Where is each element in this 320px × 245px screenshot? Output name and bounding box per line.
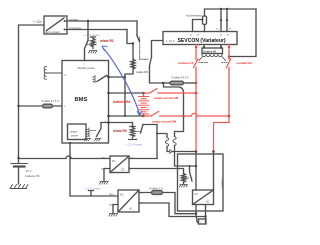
ground under relay R1 coil [89, 51, 97, 54]
wire contact C2 net [214, 45, 231, 152]
svg-text:+ 12v: + 12v [33, 20, 42, 24]
relay R2 coil [131, 44, 135, 70]
DC/DC converter 3 [118, 190, 139, 212]
pot bottom to pin 24 [204, 25, 206, 32]
charger internal relay coil [182, 174, 186, 184]
red power nets [113, 45, 252, 153]
wire BMS minus to battery top [109, 92, 144, 94]
relay R1 contact blade [85, 41, 89, 61]
node junction fused line tap [162, 82, 164, 84]
blue annotation arrow [102, 46, 142, 116]
svg-text:out +: out + [109, 193, 115, 196]
svg-text:relais R2: relais R2 [136, 70, 148, 74]
wire charger feeds into DC/DC 2 [196, 152, 214, 191]
svg-text:1, 10, 6: 1, 10, 6 [166, 39, 175, 43]
connector chevron on charger feed horizontal [169, 150, 172, 154]
wire R3 contact staircase to DC/DC and charger [143, 125, 196, 159]
wire relay R1 contact branch [87, 21, 89, 41]
node junction R2 coil top [132, 42, 134, 44]
battery bottom lead [143, 114, 145, 116]
wire impulsion drop to R2 coil [127, 30, 133, 44]
wire contact C1 net [194, 45, 199, 152]
wire 12V to DC/DC out+ with hop [19, 156, 111, 159]
wire BMS tap to R2 coil return [109, 76, 126, 78]
svg-text:BMS: BMS [75, 97, 88, 103]
svg-text:relais R3: relais R3 [113, 129, 127, 133]
svg-text:Standby power: Standby power [77, 66, 95, 70]
BMS box [62, 61, 109, 144]
node junction on contact line [87, 20, 89, 22]
svg-text:AC: AC [206, 201, 210, 204]
tap symbol on wire [89, 191, 94, 197]
wire rail to SEVCON top pins [221, 9, 227, 32]
wire fused tap jog down to battery minus rail [164, 83, 197, 167]
BMS internal relay contact top [93, 76, 95, 84]
svg-text:Accélérateur: Accélérateur [186, 14, 202, 18]
svg-text:+ 12 V venant: + 12 V venant [83, 33, 100, 37]
bobine H1 coil arcs [202, 54, 222, 57]
relay R2 mechanical link horizontal [140, 58, 148, 60]
ground chassis under 12V battery [10, 185, 28, 189]
charger relay blade [190, 166, 193, 181]
switch clef contact (key switch) box [44, 16, 67, 34]
wire DC/DC3 in- to charger [139, 203, 206, 217]
relay R2 main contact from SEVCON pin [150, 41, 164, 84]
SEVCON (Variateur) box [163, 32, 237, 45]
bobine H1 leads from SEVCON [204, 45, 221, 49]
BMS internal relay 2 coil [87, 128, 89, 137]
BMS internal relay 2 blade [97, 123, 102, 137]
fuse F1 wire from 12V rail into BMS [17, 105, 19, 107]
relay R3 ground bar [129, 139, 137, 141]
battery 12V plates [11, 158, 28, 164]
svg-text:batterie B1: batterie B1 [113, 100, 131, 104]
ground under internal coil [84, 139, 90, 141]
sensor coil at BMS left [44, 67, 62, 80]
relay R3 coil [130, 123, 135, 139]
wire contact line [65, 20, 138, 22]
wiper wire to pin 22 [193, 20, 203, 32]
relay R2 aux switch blade [137, 36, 139, 42]
svg-text:+ 12 V venant: + 12 V venant [84, 187, 100, 191]
svg-text:coupe circuit ON: coupe circuit ON [152, 120, 176, 124]
svg-text:SEVCON (Variateur): SEVCON (Variateur) [178, 38, 226, 44]
wire BMS to battery bottom [109, 115, 144, 117]
relay R1 mechanical link [87, 44, 92, 46]
relay R3 contact blade [141, 125, 144, 134]
svg-text:DC: DC [112, 160, 116, 163]
svg-text:12 V: 12 V [26, 169, 32, 173]
12V battery junction [17, 157, 19, 159]
wire rail right side down to contactor feed [229, 9, 256, 57]
svg-text:AC: AC [129, 208, 133, 211]
svg-text:impulsion: impulsion [69, 26, 82, 30]
svg-text:relais R1: relais R1 [100, 39, 114, 43]
fuse F1 [43, 104, 53, 108]
wire R2 coil return to minus rail [125, 69, 133, 116]
battery top lead [143, 93, 145, 97]
DC/DC converter 1 [110, 156, 129, 173]
svg-text:Fusible 2 A: Fusible 2 A [150, 186, 164, 190]
battery B1 cells [139, 97, 149, 115]
svg-text:charge: charge [70, 130, 78, 134]
ground under blade pivot [95, 139, 101, 141]
BMS internal relay 2 link [91, 130, 96, 132]
ground under charger relay coil [179, 185, 187, 187]
connector wiggle on charger feed vertical [165, 138, 168, 147]
DC/DC converter 2 in charger [193, 190, 214, 205]
node junction fused line to minus rail [182, 115, 184, 117]
svg-text:DC: DC [121, 169, 125, 172]
bobine H1 end leads [199, 57, 226, 61]
svg-text:bobine H1: bobine H1 [204, 50, 217, 54]
wire BMS pin4 out to relay R3 coil [101, 122, 133, 124]
BMS charge power box [68, 124, 87, 140]
svg-text:Fusible F3 5 A: Fusible F3 5 A [172, 76, 189, 80]
wire battery minus with kill switch [144, 112, 230, 117]
wire fuse F3 to contact C1 line [184, 82, 197, 84]
node junction C2 line [228, 115, 231, 118]
svg-text:contact C1: contact C1 [178, 61, 194, 65]
svg-text:chargeur: chargeur [221, 177, 225, 188]
relay R3 link [136, 131, 141, 133]
svg-text:out +: out + [101, 157, 107, 160]
svg-text:DC: DC [120, 194, 124, 197]
svg-text:DC: DC [195, 193, 199, 196]
wire contact line drop to relay R2 aux switch [136, 21, 138, 36]
connector wiggle on vertical [173, 137, 176, 146]
node rail junctions [220, 8, 222, 10]
wire DC/DC2 outputs down [196, 205, 206, 223]
svg-text:coupe circuit ON: coupe circuit ON [154, 96, 178, 100]
svg-text:batterie Pb: batterie Pb [26, 174, 40, 178]
mechanical links to contacts C1 C2 [199, 62, 208, 64]
relay R2 mechanical link vertical [139, 37, 141, 59]
fuse under charger [199, 219, 207, 224]
fuse 2A [152, 191, 163, 195]
wire +12V feed from key switch down left side [19, 25, 45, 163]
svg-text:+ 12 V venant: + 12 V venant [126, 143, 142, 147]
wire DC/DC3 out- ground [113, 205, 118, 214]
charger relay link [186, 177, 190, 179]
fuse F3 [170, 81, 184, 85]
charger box [178, 154, 224, 211]
node battery terminals [142, 92, 145, 95]
svg-text:clef contact: clef contact [45, 30, 60, 34]
wire battery plus with kill switch [144, 89, 197, 94]
relay R1 coil [91, 37, 96, 49]
pot top to supply rail [205, 9, 257, 16]
wire fused line continues to F3 [163, 82, 170, 84]
svg-text:contact: contact [69, 17, 79, 21]
svg-text:contact C2: contact C2 [237, 61, 253, 65]
wire DC/DC3 in+ via fuse to charger [139, 193, 196, 214]
node charger feed dots [195, 150, 198, 153]
wire DC/DC1 in+ from R3 contact [129, 158, 157, 160]
wire DC/DC1 in- to charger relay coil [129, 169, 184, 174]
svg-text:Fusible F1 5 A: Fusible F1 5 A [42, 99, 59, 103]
bobine H1 contactor coil box [202, 48, 223, 54]
wire impulsion line [65, 29, 128, 31]
svg-text:power: power [71, 134, 78, 138]
wire BMS bottom out to DC/DC 3 [70, 143, 118, 196]
wire DC/DC1 out- to ground [104, 169, 110, 182]
